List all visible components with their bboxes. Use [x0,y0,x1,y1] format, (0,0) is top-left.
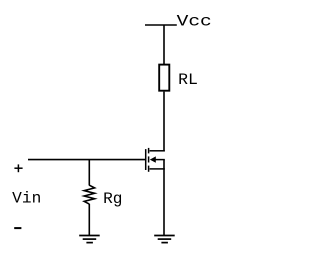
ground under Rg [79,236,100,243]
wire source to ground [163,160,165,236]
power rail Vcc [145,24,177,26]
label - [14,227,21,229]
resistor RL [159,65,169,91]
label Vcc [177,12,212,30]
transistor M1 n-channel MOSFET [146,148,165,172]
label Vin [12,190,41,208]
resistor Rg [84,185,94,204]
label Rg [103,190,122,208]
label RL [178,71,198,89]
label + [14,164,22,172]
svg-text:RL: RL [178,71,198,89]
ground under source [154,236,175,243]
svg-text:Vcc: Vcc [177,12,212,30]
svg-text:Rg: Rg [103,190,122,208]
wire RL bottom to drain [163,92,165,152]
wire junction to Rg [88,160,90,186]
svg-text:Vin: Vin [12,190,41,208]
wire Vcc rail to RL top [163,25,165,65]
wire Rg to ground [88,204,90,236]
wire input to gate [28,159,145,161]
